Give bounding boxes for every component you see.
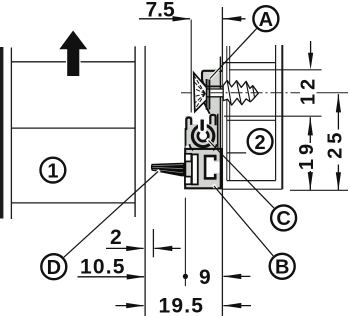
right ear outline xyxy=(210,115,215,125)
middle blob left edge xyxy=(185,128,187,150)
svg-text:2: 2 xyxy=(255,132,266,154)
dim 19.5 line left xyxy=(116,305,144,307)
svg-text:25: 25 xyxy=(324,129,346,159)
wire: panel1 horizontal top xyxy=(11,61,135,63)
wire: panel1 right inner face xyxy=(134,46,136,217)
profile top hook grey fill xyxy=(201,70,222,87)
dim 19 arrowhead up-pointing xyxy=(308,117,313,135)
dim 2 arrowhead right-pointing xyxy=(126,246,144,251)
thread helix lines xyxy=(227,81,255,104)
centerline extension right of 12 text xyxy=(317,92,349,94)
svg-text:B: B xyxy=(275,257,289,279)
wire: panel1 horizontal middle xyxy=(11,127,135,129)
wire: panel2 bottom edge xyxy=(227,180,276,182)
dim 2 arrowhead left-pointing xyxy=(154,246,172,251)
dim 10.5 line xyxy=(78,276,145,278)
profile upper column grey fill xyxy=(205,86,223,114)
bottom extension line right xyxy=(290,189,348,191)
svg-text:2: 2 xyxy=(110,226,122,249)
extension x185.4 xyxy=(184,198,186,286)
extension line at x191 xyxy=(190,20,192,113)
extension x145 xyxy=(144,46,146,316)
dim 25 arrowhead down-pointing xyxy=(336,172,341,190)
svg-text:19: 19 xyxy=(296,140,318,170)
bottom slot 1 xyxy=(192,154,198,184)
screw shank xyxy=(207,89,224,97)
C-clip ring outer black xyxy=(191,124,216,149)
neck outline left xyxy=(190,144,194,150)
wire: panel1 left outer face xyxy=(0,47,3,219)
neck outline right xyxy=(213,144,217,150)
dim 7.5 line left xyxy=(139,18,190,20)
direction arrow (up, solid black) xyxy=(59,31,87,77)
balloon A xyxy=(253,6,278,31)
balloon 1 xyxy=(41,158,66,183)
wire: panel2 right face xyxy=(275,45,277,181)
dim 25 arrowhead up-pointing xyxy=(336,94,341,112)
dim 12 arrow shaft top xyxy=(310,41,312,54)
svg-text:A: A xyxy=(259,9,273,31)
dim 7.5 arrowhead right-pointing xyxy=(173,16,191,21)
svg-text:9: 9 xyxy=(199,266,211,289)
boundary dot xyxy=(183,274,188,279)
balloon D xyxy=(41,254,66,279)
column left edge below right ear xyxy=(217,114,219,150)
wire: groove top / 12 extension top xyxy=(229,69,322,71)
dim 25 line lower xyxy=(337,165,339,191)
T slot bottom bar xyxy=(204,177,216,180)
screw head rim bar right xyxy=(208,80,210,110)
leader D xyxy=(64,172,158,258)
wire: panel2 glue joint line a xyxy=(226,46,228,181)
wire: panel1 horizontal bottom xyxy=(11,202,135,204)
wire: panel1 left inner face xyxy=(10,48,12,220)
dim 19 line upper xyxy=(309,117,311,143)
C-clip tab xyxy=(201,120,204,131)
C-clip grey ring xyxy=(194,127,212,145)
leader B xyxy=(214,186,273,256)
svg-text:12: 12 xyxy=(298,75,320,105)
diagonal step outline xyxy=(204,102,210,113)
leader C halo xyxy=(207,139,217,149)
svg-text:C: C xyxy=(276,208,290,230)
dim 19.5 arrowhead right-pointing xyxy=(126,303,144,308)
wall face lines over profile xyxy=(219,57,221,189)
long vertical line: profile right wall face + extension for 7.5 / 9 / 19.5 xyxy=(221,7,223,316)
dim 2 line right xyxy=(155,247,181,249)
C-clip inner black C xyxy=(197,129,210,142)
svg-text:D: D xyxy=(47,257,61,279)
dim 7.5 arrowhead left-pointing xyxy=(223,16,241,21)
leader D halo inside brush xyxy=(147,170,160,181)
wire: panel2 inner line xyxy=(227,119,276,121)
dim 9 line xyxy=(224,275,251,277)
leader A halo xyxy=(210,68,220,79)
leader C xyxy=(209,141,275,209)
hook outline xyxy=(202,71,222,88)
wire: panel2 top edge xyxy=(222,62,275,64)
T slot right top lip xyxy=(214,155,217,161)
profile middle blob grey fill xyxy=(185,114,222,149)
wire: wall outer face xyxy=(281,45,283,189)
dim 19 arrowhead down-pointing xyxy=(308,172,313,190)
dim 9 arrowhead left-pointing xyxy=(223,274,241,279)
left ear outline xyxy=(186,118,191,131)
dim 2 line left xyxy=(106,247,144,249)
dim 10.5 arrowhead right-pointing xyxy=(127,274,145,279)
bottom T slot white xyxy=(206,157,220,177)
panel 1 (left door panel) xyxy=(2,46,135,219)
balloon C xyxy=(271,205,296,230)
dim 19 line lower xyxy=(309,171,311,190)
svg-text:1: 1 xyxy=(47,160,58,182)
screw head rim bar left xyxy=(206,79,208,110)
dim 7.5 line right xyxy=(223,18,246,20)
svg-text:19.5: 19.5 xyxy=(159,295,205,316)
dim 12 arrowhead down-pointing xyxy=(308,53,313,70)
screw head fan lines xyxy=(194,76,205,110)
T slot right bottom lip xyxy=(214,174,217,180)
wire: groove bottom / 12 extension bottom xyxy=(224,115,322,117)
wire: panel2 short line at label 2 xyxy=(227,152,246,154)
leader A xyxy=(210,29,257,79)
wire: wall bottom edge xyxy=(222,188,282,190)
C-clip opening gap xyxy=(198,120,207,134)
svg-text:10.5: 10.5 xyxy=(80,256,126,279)
C-clip white center xyxy=(199,132,207,140)
screw threads xyxy=(223,80,258,105)
centerline left segment xyxy=(181,92,194,94)
groove lines in panel2 = extension lines for dim 12 xyxy=(224,70,322,116)
wire: panel2 glue joint line b xyxy=(229,46,231,181)
T slot left leg xyxy=(204,155,207,179)
neck white notch right xyxy=(214,146,217,150)
panel 2 (right bottom panel) and cabinet wall xyxy=(222,45,282,189)
left notch bottom xyxy=(185,177,191,185)
centerline right xyxy=(211,92,301,94)
dim 25 line upper xyxy=(337,94,339,129)
white slot above C-clip xyxy=(192,103,210,124)
bottom section outline xyxy=(185,149,221,188)
profile bottom section grey fill xyxy=(185,149,222,188)
extension x153.4 xyxy=(152,229,154,257)
balloon 2 xyxy=(248,129,273,154)
hook bottom edge xyxy=(207,85,223,87)
dim 19.5 line right xyxy=(224,305,252,307)
dim 19.5 arrowhead left-pointing xyxy=(223,303,241,308)
leader B halo xyxy=(213,185,218,191)
balloon B xyxy=(270,254,295,279)
T slot top bar xyxy=(204,155,216,158)
screw head cone xyxy=(194,73,207,112)
left notch top xyxy=(185,154,191,162)
neck white notch left xyxy=(186,146,190,150)
